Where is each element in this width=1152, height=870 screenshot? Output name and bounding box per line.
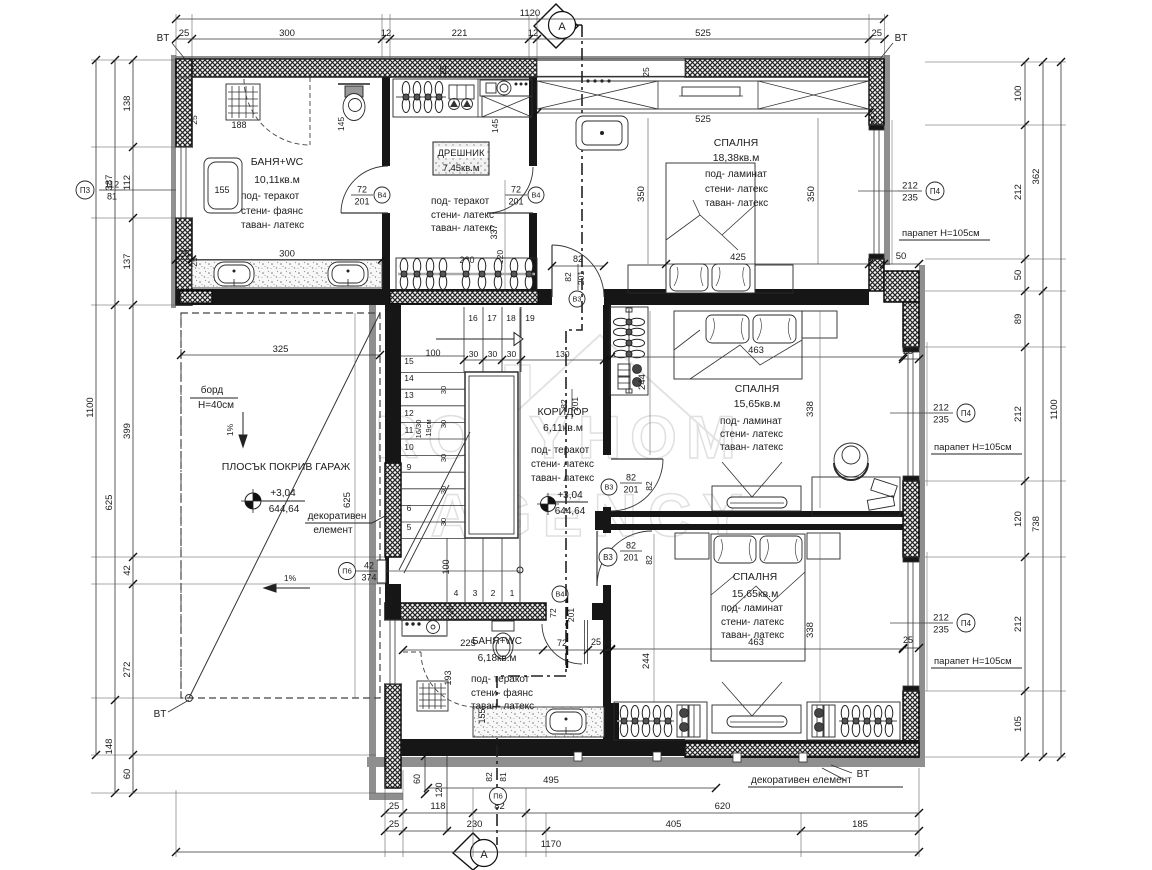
- stair walk line with arrow: [517, 567, 523, 573]
- svg-text:1: 1: [510, 588, 515, 598]
- svg-text:350: 350: [636, 186, 647, 202]
- svg-text:СПАЛНЯ: СПАЛНЯ: [733, 571, 777, 583]
- svg-text:стени- латекс: стени- латекс: [720, 429, 783, 440]
- wall bottom of upper block (left part): [176, 289, 552, 305]
- svg-text:463: 463: [748, 345, 764, 356]
- svg-text:72: 72: [357, 185, 367, 195]
- exterior wall right corner top: [869, 59, 884, 125]
- door bathroom1 (B4 72/201): [341, 166, 388, 213]
- svg-text:120: 120: [1013, 511, 1024, 527]
- window right bedroom3 212: [903, 552, 927, 691]
- svg-text:9: 9: [407, 462, 412, 472]
- svg-text:18,38кв.м: 18,38кв.м: [713, 152, 760, 164]
- closet crossed box: [482, 96, 532, 117]
- svg-text:244: 244: [637, 374, 648, 390]
- svg-text:25: 25: [179, 28, 190, 39]
- wall edge outlines: [176, 59, 884, 77]
- svg-text:25: 25: [591, 637, 601, 647]
- bedroom1 armchair: [576, 116, 628, 150]
- svg-text:118: 118: [430, 801, 445, 812]
- svg-text:212: 212: [1013, 406, 1024, 422]
- door closet (B4 72/201): [487, 167, 533, 213]
- svg-text:25: 25: [384, 312, 394, 322]
- bedroom3 wardrobe right: [807, 702, 900, 740]
- bedroom1 pillows: [670, 264, 708, 291]
- bathroom2 east wall: [603, 620, 611, 703]
- svg-text:212: 212: [1013, 184, 1024, 200]
- svg-text:13: 13: [404, 390, 414, 400]
- exterior wall bottom hatched band: [685, 743, 919, 757]
- wall closet/bedroom1: [529, 77, 537, 166]
- svg-text:644,64: 644,64: [555, 506, 586, 517]
- svg-text:82: 82: [644, 555, 654, 565]
- svg-text:212: 212: [933, 613, 949, 624]
- svg-text:стени- латекс: стени- латекс: [531, 459, 594, 470]
- svg-text:201: 201: [623, 553, 638, 563]
- svg-text:425: 425: [730, 252, 746, 263]
- svg-text:30: 30: [507, 349, 517, 359]
- dimension line garage 325: [177, 351, 384, 359]
- svg-text:155: 155: [214, 185, 229, 195]
- bedroom3 TV: [712, 705, 801, 733]
- svg-text:60: 60: [122, 769, 133, 780]
- svg-text:стени- фаянс: стени- фаянс: [241, 205, 303, 217]
- svg-text:СПАЛНЯ: СПАЛНЯ: [714, 137, 758, 149]
- svg-text:П3: П3: [80, 186, 91, 195]
- svg-text:СПАЛНЯ: СПАЛНЯ: [735, 383, 779, 395]
- section line A-A: [497, 25, 582, 845]
- svg-text:148: 148: [104, 739, 115, 755]
- stair top flight treads: [464, 307, 521, 372]
- svg-text:89: 89: [1013, 314, 1024, 325]
- svg-text:BT: BT: [157, 33, 170, 44]
- bathroom1 bathtub: [204, 158, 242, 213]
- bedroom2 pillows: [706, 315, 749, 343]
- svg-text:6,11кв.м: 6,11кв.м: [543, 422, 583, 434]
- svg-text:350: 350: [806, 186, 817, 202]
- svg-text:под- ламинат: под- ламинат: [721, 603, 783, 614]
- bedroom3 pillows: [714, 536, 756, 563]
- svg-text:12: 12: [381, 28, 392, 39]
- svg-text:В4: В4: [532, 191, 541, 200]
- svg-text:338: 338: [805, 622, 816, 638]
- svg-text:19см: 19см: [424, 419, 433, 436]
- svg-text:под- теракот: под- теракот: [431, 196, 490, 207]
- svg-text:525: 525: [695, 114, 711, 125]
- bottom extension lines: [176, 768, 919, 857]
- bedroom2 bed: [674, 311, 802, 379]
- svg-text:В3: В3: [605, 483, 614, 492]
- svg-text:42: 42: [122, 565, 133, 576]
- bathroom2 shower door dashed: [421, 652, 476, 707]
- bedroom1 dims 350: [647, 118, 649, 264]
- door bedroom2 (B3 82/201): [611, 459, 663, 511]
- svg-text:105: 105: [1013, 716, 1024, 732]
- svg-text:ДРЕШНИК: ДРЕШНИК: [437, 148, 485, 159]
- dimension line top segs: [172, 35, 889, 43]
- dimension line left 1100: [92, 56, 100, 759]
- bedroom1 blanket folds: [666, 200, 755, 250]
- window left (bathroom1) 112: [173, 144, 192, 221]
- svg-text:72: 72: [557, 638, 567, 648]
- svg-text:под- теракот: под- теракот: [471, 674, 530, 685]
- svg-text:ПЛОСЪК ПОКРИВ ГАРАЖ: ПЛОСЪК ПОКРИВ ГАРАЖ: [222, 461, 351, 473]
- svg-text:145: 145: [490, 119, 500, 133]
- door bedroom1 from corridor (B3 82/201): [552, 245, 604, 297]
- svg-text:стени- фаянс: стени- фаянс: [471, 687, 533, 699]
- svg-text:H=40см: H=40см: [198, 400, 234, 411]
- svg-text:188: 188: [231, 120, 246, 130]
- stair break line: [399, 432, 470, 570]
- dimension line b2 25: [899, 355, 923, 363]
- wall bottom of upper block (right part): [604, 289, 869, 305]
- svg-text:В3: В3: [603, 553, 613, 562]
- svg-text:112: 112: [122, 175, 133, 190]
- svg-text:120: 120: [434, 782, 444, 797]
- bathroom1 shower: [226, 84, 260, 120]
- door bedroom3 (B3 82/201): [597, 531, 652, 586]
- svg-text:16/30: 16/30: [414, 420, 423, 439]
- dimension line left mid: [111, 56, 119, 797]
- window right bedroom1 212: [869, 120, 892, 264]
- svg-text:185: 185: [852, 819, 868, 830]
- svg-text:81: 81: [498, 772, 508, 782]
- svg-text:463: 463: [748, 637, 764, 648]
- svg-text:под- ламинат: под- ламинат: [705, 169, 767, 180]
- svg-text:1170: 1170: [541, 839, 561, 850]
- bedroom3 window label П4: [929, 613, 953, 636]
- bathroom1 vanity counter: [192, 260, 382, 288]
- svg-text:25: 25: [871, 28, 882, 39]
- svg-text:25: 25: [445, 605, 455, 615]
- svg-text:30: 30: [439, 454, 448, 462]
- stair bottom flight treads: [447, 538, 520, 602]
- svg-text:П6: П6: [493, 792, 503, 801]
- exterior wall left lower segment: [176, 218, 192, 305]
- svg-text:под- теракот: под- теракот: [531, 445, 590, 456]
- svg-text:стени- латекс: стени- латекс: [705, 184, 768, 195]
- watermark logo and text: [375, 335, 753, 549]
- garage corner circle: [186, 695, 193, 702]
- svg-text:60: 60: [412, 774, 422, 784]
- svg-text:11: 11: [405, 425, 414, 435]
- exterior wall top: [176, 59, 919, 788]
- svg-text:борд: борд: [201, 384, 224, 396]
- closet bottom wardrobe row: [396, 258, 537, 291]
- svg-text:25: 25: [384, 595, 394, 605]
- door bathroom2 (B4 72/201): [542, 624, 582, 664]
- exterior wall right pier 120: [903, 481, 919, 557]
- bathroom2 washer counter: [402, 620, 447, 636]
- svg-text:декоративен: декоративен: [308, 511, 367, 522]
- svg-text:3: 3: [473, 588, 478, 598]
- corridor level mark: [537, 493, 559, 515]
- svg-text:17: 17: [487, 313, 497, 323]
- svg-text:12: 12: [528, 28, 539, 39]
- garage diagonal line: [189, 313, 380, 698]
- svg-text:72: 72: [511, 185, 521, 195]
- dimension line right mid: [1039, 58, 1047, 761]
- svg-text:82: 82: [644, 481, 654, 491]
- small dots decor: [586, 79, 610, 82]
- svg-text:272: 272: [122, 662, 133, 678]
- bathroom1 sink 2: [328, 262, 368, 286]
- svg-text:100: 100: [1013, 86, 1024, 102]
- svg-text:16: 16: [468, 313, 478, 323]
- svg-text:325: 325: [273, 344, 289, 355]
- svg-text:елемент: елемент: [313, 525, 353, 536]
- window stairwell west 42 area opening: [385, 620, 401, 684]
- bathroom1 toilet: [338, 83, 370, 85]
- svg-text:BT: BT: [857, 769, 870, 780]
- bedroom2 blanket: [674, 330, 802, 379]
- svg-text:25: 25: [389, 801, 400, 812]
- bathroom1 shower door dashed arc: [244, 79, 310, 145]
- bedroom1 wardrobe along top: [537, 81, 869, 109]
- svg-text:625: 625: [104, 495, 115, 511]
- bathroom1 sink 1: [214, 262, 254, 286]
- svg-text:235: 235: [902, 193, 918, 204]
- bedroom1 nightstand right: [755, 265, 793, 293]
- window right bedroom2 212: [903, 342, 927, 486]
- bedroom1 window label П4: [898, 181, 922, 204]
- svg-text:14: 14: [404, 373, 414, 383]
- exterior wall right step at 50: [869, 259, 884, 291]
- stair west wall solid segments: [385, 305, 401, 463]
- garage level mark: [241, 489, 265, 513]
- svg-text:42: 42: [364, 561, 374, 571]
- svg-text:A: A: [480, 849, 488, 861]
- dimension line b2 463: [607, 353, 907, 361]
- svg-text:230: 230: [467, 819, 483, 830]
- svg-text:12: 12: [404, 408, 414, 418]
- garage 1% arrow left: [264, 584, 310, 592]
- exterior wall right corner bottom: [903, 691, 919, 757]
- svg-text:1%: 1%: [284, 573, 297, 583]
- dimension line b1 425: [662, 260, 873, 268]
- svg-text:П4: П4: [961, 409, 972, 418]
- svg-text:18: 18: [506, 313, 516, 323]
- svg-text:30: 30: [439, 486, 448, 494]
- svg-text:таван- латекс: таван- латекс: [431, 223, 494, 234]
- svg-text:201: 201: [576, 271, 586, 285]
- bedroom2 wardrobe: [610, 307, 648, 395]
- svg-text:338: 338: [805, 401, 816, 417]
- garage slope arrow down: [239, 412, 247, 447]
- svg-text:A: A: [558, 21, 566, 33]
- svg-text:25: 25: [389, 819, 400, 830]
- svg-text:КОРИДОР: КОРИДОР: [538, 406, 589, 418]
- svg-text:50: 50: [896, 251, 907, 262]
- closet label box: [433, 142, 489, 175]
- svg-text:82: 82: [484, 772, 494, 782]
- closet top shelf with shoes: [449, 85, 474, 99]
- svg-text:137: 137: [122, 254, 133, 270]
- svg-text:25: 25: [903, 635, 913, 645]
- corridor east wall: [603, 305, 611, 455]
- svg-text:337: 337: [489, 224, 499, 239]
- interior walls (solid): [176, 77, 919, 758]
- dimension line bottom row3: [381, 827, 923, 835]
- svg-text:235: 235: [933, 625, 949, 636]
- dimension line b3 25: [899, 644, 923, 652]
- bathroom2 counter with sink: [473, 707, 604, 737]
- svg-text:10: 10: [404, 442, 414, 452]
- dimension line bottom 495: [424, 784, 720, 792]
- svg-text:В3: В3: [573, 295, 582, 304]
- svg-text:50: 50: [1013, 270, 1024, 281]
- svg-text:300: 300: [279, 28, 295, 39]
- stair bottom flight numbers: [454, 588, 515, 598]
- svg-text:30: 30: [439, 518, 448, 526]
- exterior wall left upper segment: [176, 59, 192, 147]
- svg-text:парапет H=105см: парапет H=105см: [902, 228, 980, 239]
- bedroom3 blanket: [711, 572, 805, 612]
- svg-text:4: 4: [454, 588, 459, 598]
- svg-text:201: 201: [354, 197, 369, 207]
- bottom band anchor squares: [574, 752, 807, 762]
- svg-text:BT: BT: [154, 709, 167, 720]
- dimension line left inner: [129, 56, 137, 797]
- svg-text:стени- латекс: стени- латекс: [431, 210, 494, 221]
- svg-text:201: 201: [508, 197, 523, 207]
- svg-text:таван- латекс: таван- латекс: [720, 442, 783, 453]
- svg-text:212: 212: [902, 181, 918, 192]
- section marker A bottom: [453, 833, 498, 870]
- svg-text:362: 362: [1031, 169, 1042, 185]
- svg-text:25: 25: [438, 65, 448, 75]
- svg-text:15,65кв.м: 15,65кв.м: [732, 588, 779, 600]
- decorative render band around building: [171, 55, 925, 800]
- svg-text:П4: П4: [930, 187, 941, 196]
- svg-text:1100: 1100: [85, 397, 96, 417]
- stair left flight numbers: [404, 356, 414, 532]
- svg-text:212: 212: [1013, 616, 1024, 632]
- stair left flight treads: [401, 356, 465, 539]
- bedroom2 desk: [812, 477, 900, 516]
- svg-text:193: 193: [443, 670, 453, 685]
- dimension line d50: [880, 260, 923, 268]
- svg-text:6,18кв.м: 6,18кв.м: [478, 653, 517, 664]
- svg-text:235: 235: [933, 415, 949, 426]
- dimension line b3 463: [607, 645, 907, 653]
- bedroom2 nightstand: [802, 311, 837, 338]
- svg-text:декоративен елемент: декоративен елемент: [751, 775, 852, 786]
- closet washing machine: [480, 80, 532, 96]
- bedroom2 window label П4: [929, 403, 953, 426]
- svg-text:7,45кв.м: 7,45кв.м: [443, 163, 480, 174]
- svg-text:138: 138: [122, 96, 133, 112]
- stair 42/374 entry label: [339, 563, 356, 580]
- svg-text:495: 495: [543, 775, 559, 786]
- svg-text:П6: П6: [342, 567, 352, 576]
- svg-text:2: 2: [491, 588, 496, 598]
- top extension lines: [176, 14, 885, 59]
- right extension lines: [925, 62, 1066, 757]
- window top of bedroom1: [537, 59, 685, 77]
- svg-text:625: 625: [342, 492, 353, 508]
- svg-text:15,65кв.м: 15,65кв.м: [734, 398, 781, 410]
- svg-text:25: 25: [641, 67, 651, 77]
- stair core: [465, 372, 518, 538]
- svg-text:П4: П4: [961, 619, 972, 628]
- stair top flight numbers: [468, 313, 535, 323]
- dimension line top 1120: [172, 15, 888, 23]
- svg-text:1100: 1100: [1049, 399, 1060, 419]
- bedroom1 bed: [666, 163, 755, 293]
- dimension line bottom row2: [381, 809, 923, 817]
- svg-text:738: 738: [1031, 516, 1042, 532]
- bedroom2 chair: [834, 443, 868, 477]
- bedroom3 wardrobe left: [614, 702, 707, 740]
- svg-text:100: 100: [425, 348, 440, 358]
- svg-text:130: 130: [555, 349, 569, 359]
- dimension line b1 counter: [172, 256, 386, 264]
- svg-text:В4: В4: [556, 590, 565, 599]
- svg-text:620: 620: [715, 801, 731, 812]
- svg-text:221: 221: [452, 28, 468, 39]
- svg-text:25: 25: [189, 115, 199, 125]
- svg-text:БАНЯ+WC: БАНЯ+WC: [251, 156, 304, 168]
- dimension line b4 225 72 25 12: [399, 646, 615, 654]
- svg-text:25: 25: [869, 115, 879, 125]
- svg-text:БАНЯ+WC: БАНЯ+WC: [472, 636, 522, 647]
- svg-text:таван- латекс: таван- латекс: [531, 473, 594, 484]
- bedroom1 nightstand left: [628, 265, 666, 293]
- svg-text:244: 244: [641, 653, 652, 669]
- wall between bedroom2 and bedroom3: [595, 511, 903, 530]
- bathroom2 shower: [417, 681, 448, 711]
- svg-text:под- ламинат: под- ламинат: [720, 416, 782, 427]
- svg-text:таван- латекс: таван- латекс: [705, 198, 768, 209]
- bathroom2 top wall: [385, 603, 546, 620]
- svg-text:82: 82: [626, 541, 636, 551]
- svg-text:82: 82: [563, 272, 573, 282]
- hatched segments overlaying upper-block bottom wall: [180, 291, 538, 304]
- svg-text:82: 82: [626, 473, 636, 483]
- stair west wall hatched segments: [385, 463, 401, 557]
- svg-text:таван- латекс: таван- латекс: [241, 220, 304, 231]
- svg-text:под- теракот: под- теракот: [241, 191, 300, 202]
- svg-text:145: 145: [336, 117, 346, 131]
- svg-text:BT: BT: [895, 33, 908, 44]
- closet top wardrobe row: [393, 79, 532, 117]
- svg-text:30: 30: [488, 349, 498, 359]
- svg-text:+3,04: +3,04: [557, 490, 583, 501]
- svg-text:405: 405: [666, 819, 682, 830]
- stair corridor divider: [519, 307, 521, 600]
- svg-text:стени- латекс: стени- латекс: [721, 617, 784, 628]
- bedroom3 nightstand left: [675, 533, 709, 559]
- left extension lines: [91, 60, 403, 793]
- svg-text:644,64: 644,64: [269, 504, 300, 515]
- svg-text:парапет H=105см: парапет H=105см: [934, 656, 1012, 667]
- garage flat roof dashed boundary: [181, 313, 380, 698]
- bottom wall under bathroom2 / bedroom3: [401, 739, 685, 756]
- svg-text:6: 6: [407, 503, 412, 513]
- svg-text:+3,04: +3,04: [270, 488, 296, 499]
- bedroom3 bed: [711, 534, 805, 661]
- bedroom3 nightstand right: [807, 533, 840, 559]
- svg-text:525: 525: [695, 28, 711, 39]
- svg-text:25: 25: [189, 257, 199, 267]
- dimension line b1 525: [533, 109, 873, 117]
- svg-text:30: 30: [469, 349, 479, 359]
- dimension line bottom 1170: [172, 848, 923, 856]
- dimension line stair30top and 130: [460, 356, 608, 364]
- exterior wall right pier 89: [903, 302, 919, 347]
- svg-text:В4: В4: [378, 191, 387, 200]
